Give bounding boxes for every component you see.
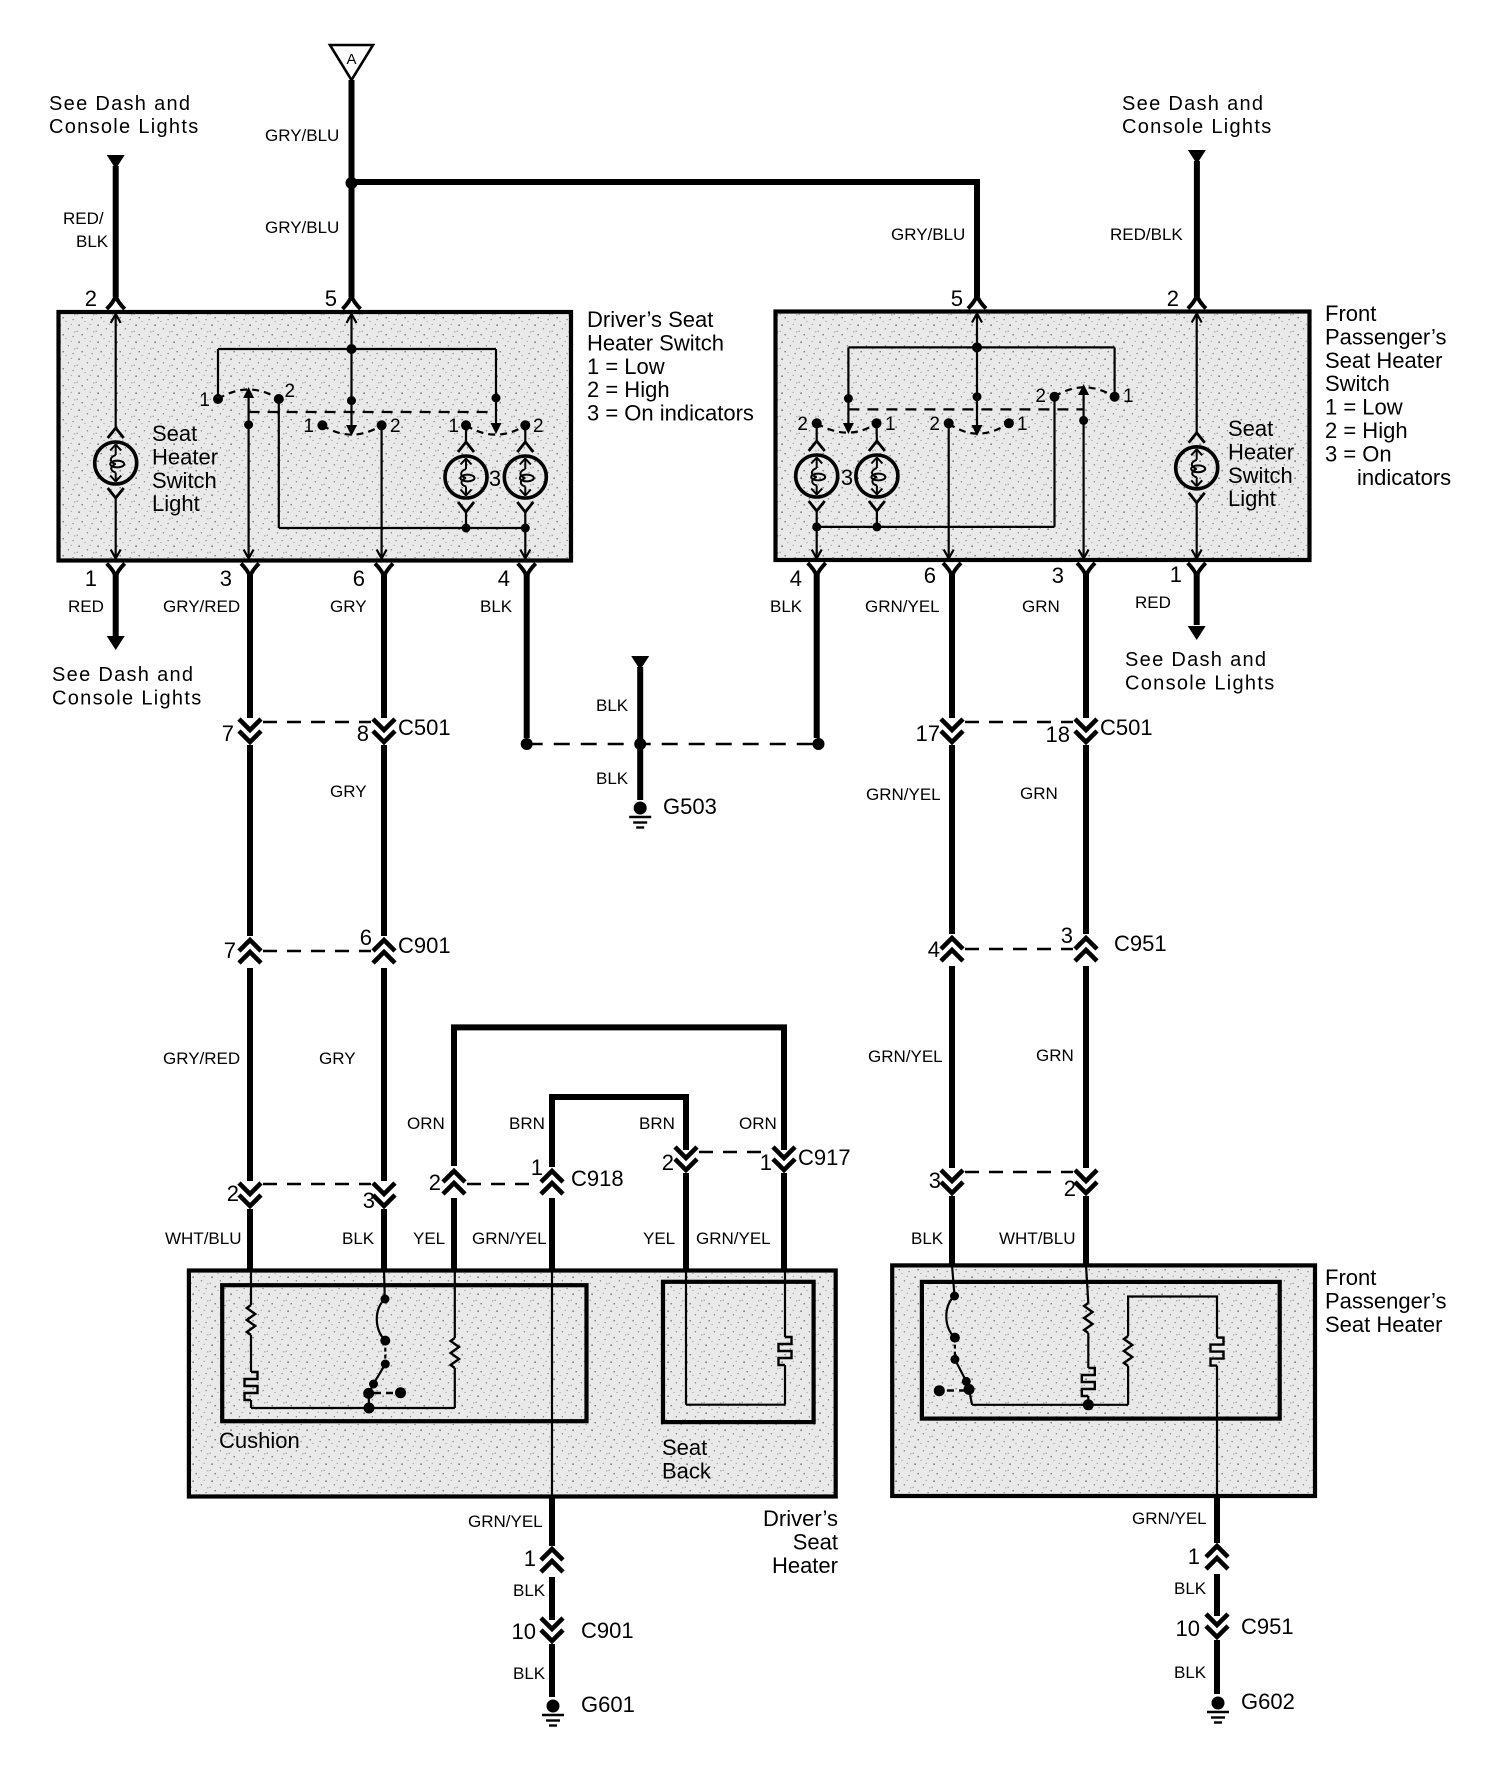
connector C501 pin 7 [239, 719, 261, 742]
svg-text:2: 2 [533, 416, 544, 437]
svg-text:Seat: Seat [1228, 416, 1273, 441]
thermostat moving arm (passenger) [955, 1359, 969, 1389]
svg-text:GRY: GRY [330, 597, 367, 616]
thermostat moving arm (driver) [369, 1364, 386, 1393]
wire GRN/YEL pin6 to C501 [949, 574, 955, 718]
pin 5 internal terminal arrow (passenger) [972, 314, 982, 323]
wire GRN/YEL inside seat back [784, 1270, 786, 1337]
junction dot on passenger return [1083, 1399, 1094, 1410]
connector C501 pin 17 [941, 719, 963, 742]
svg-text:6: 6 [924, 563, 936, 588]
wire GRN/YEL driver heater to C901 [549, 1496, 555, 1546]
svg-text:1 = Low: 1 = Low [587, 354, 665, 379]
svg-text:GRN/YEL: GRN/YEL [865, 597, 940, 616]
wire contact1 S3 to indicator lamp 1 [465, 425, 467, 442]
thermostat link dot (driver) [395, 1387, 406, 1398]
svg-text:WHT/BLU: WHT/BLU [165, 1229, 242, 1248]
contact 1 dot of switch S4 [872, 418, 882, 428]
svg-text:18: 18 [1046, 722, 1070, 747]
passenger seat connector dashed pairing line [965, 1171, 1073, 1173]
svg-text:G601: G601 [581, 1692, 635, 1717]
thermostat bimetal curve (driver) [377, 1299, 386, 1341]
svg-text:C501: C501 [398, 715, 451, 740]
dashed splice link [527, 743, 819, 745]
svg-text:GRN: GRN [1022, 597, 1060, 616]
connector C917 dashed pairing line [699, 1151, 771, 1153]
wire fuse to cushion return [250, 1400, 252, 1408]
svg-text:G503: G503 [663, 794, 717, 819]
junction dot at GRY/BLU tee [346, 177, 358, 189]
wire lamp3 to indicator bus [816, 511, 818, 527]
contact 2 dot of switch S1 (high) [274, 394, 284, 404]
wire BLK C901 to ground G601 [549, 1644, 555, 1697]
contact 2 dot of switch S5 [944, 418, 954, 428]
svg-text:C901: C901 [581, 1618, 634, 1643]
svg-text:1: 1 [85, 566, 97, 591]
lamp seat heater switch light (driver) [95, 428, 137, 498]
arrow from dash/console lights (top left) [107, 155, 125, 169]
svg-text:BLK: BLK [480, 597, 513, 616]
svg-text:3: 3 [220, 566, 232, 591]
wire GRY/RED pin3 to C501 [247, 574, 253, 718]
wire pin5 to internal bus [350, 316, 352, 349]
wire RED passenger pin 1 to dash/console lights [1194, 574, 1200, 625]
passenger seat connector pin 3 [941, 1170, 963, 1193]
svg-text:Console Lights: Console Lights [52, 688, 203, 710]
svg-text:2: 2 [85, 286, 97, 311]
connector triangle A (page link) [330, 45, 373, 80]
wire RED from pin 1 to dash/console lights [113, 574, 119, 636]
contact 2 dot of switch S2 [377, 420, 387, 430]
svg-text:GRY/BLU: GRY/BLU [265, 126, 339, 145]
svg-text:Seat Heater: Seat Heater [1325, 1312, 1442, 1337]
wire GRY pin6 to C501 [381, 574, 387, 718]
wire GRY C901 to cushion connector [381, 968, 387, 1181]
wire BLK inside cushion to thermostat [383, 1270, 386, 1299]
svg-text:GRN: GRN [1036, 1046, 1074, 1065]
wire RED/BLK to passenger switch pin 2 [1194, 161, 1200, 297]
svg-text:7: 7 [224, 938, 236, 963]
wire contact2 S2 to pin 6 [381, 425, 383, 558]
cushion connector pin 2 [239, 1183, 261, 1206]
wire element to fuse (passenger) [1087, 1333, 1089, 1368]
switch S1 dashed throw arc [218, 390, 279, 400]
svg-text:See Dash and: See Dash and [49, 93, 191, 115]
pin 2 internal terminal arrow [111, 314, 121, 323]
wire BLK to ground splice [637, 667, 643, 744]
svg-text:2: 2 [1035, 386, 1046, 407]
svg-text:RED: RED [68, 597, 104, 616]
passenger seat connector pin 2 [1075, 1170, 1097, 1193]
svg-text:ORN: ORN [407, 1114, 445, 1133]
resistor cushion heater element 1 (driver) [247, 1305, 255, 1335]
wire BLK C951 to ground G602 [1214, 1640, 1220, 1694]
thermostat link dot (passenger) [934, 1385, 945, 1396]
svg-text:BRN: BRN [639, 1114, 675, 1133]
svg-text:Front: Front [1325, 1265, 1376, 1290]
svg-text:2: 2 [1064, 1176, 1076, 1201]
connector C901 pin 6 [373, 940, 395, 963]
svg-text:BLK: BLK [513, 1664, 546, 1683]
svg-text:1: 1 [524, 1546, 536, 1571]
switch S2 dashed throw arc [322, 425, 381, 434]
internal bus from pin 5 [218, 348, 496, 350]
resistor passenger heater element 2 [1124, 1336, 1132, 1366]
wire YEL inside cushion [454, 1270, 456, 1338]
indicator lamp 1 (driver) [445, 442, 487, 512]
svg-text:BLK: BLK [596, 696, 629, 715]
wire element2 up and over (passenger) [1128, 1297, 1217, 1338]
wire fuse2 down through box (passenger) [1216, 1366, 1218, 1496]
wire bus to switch S1 contact 1 [217, 349, 219, 399]
connector C901 dashed pairing line [263, 950, 371, 952]
thermostat contact gap segment [384, 1341, 386, 1364]
svg-text:Heater: Heater [152, 444, 218, 469]
connector C501 dashed pairing line (left) [263, 721, 371, 723]
svg-text:Seat Heater: Seat Heater [1325, 348, 1442, 373]
svg-text:GRN/YEL: GRN/YEL [468, 1512, 543, 1531]
cushion connector dashed pairing line [263, 1183, 371, 1185]
wire BLK into heater (driver) [381, 1209, 387, 1272]
svg-text:2: 2 [797, 414, 808, 435]
svg-text:C917: C917 [798, 1145, 851, 1170]
svg-text:BLK: BLK [770, 597, 803, 616]
wire GRY/BLU branch across to passenger switch pin 5 [349, 179, 978, 185]
svg-text:GRY/RED: GRY/RED [163, 1049, 240, 1068]
splice dot left (driver BLK) [521, 738, 533, 750]
svg-text:Passenger’s: Passenger’s [1325, 324, 1446, 349]
cushion connector pin 3 [373, 1183, 395, 1206]
svg-text:RED: RED [1135, 593, 1171, 612]
wire GRY/BLU junction to driver switch pin 5 [349, 183, 355, 297]
connector C918 dashed pairing line [467, 1183, 539, 1185]
connector C917 pin 1 [773, 1147, 795, 1170]
switch S1 pole with arrow (to pin 3) [248, 398, 250, 558]
svg-text:4: 4 [498, 566, 510, 591]
svg-text:1: 1 [531, 1155, 543, 1180]
seat back heater element box [663, 1282, 814, 1422]
thermal fuse cushion (driver) [245, 1372, 258, 1400]
svg-text:See Dash and: See Dash and [1125, 649, 1267, 671]
svg-text:Switch: Switch [152, 468, 217, 493]
svg-text:6: 6 [353, 566, 365, 591]
svg-text:3: 3 [841, 465, 853, 490]
indicator return bus (passenger) [817, 526, 1055, 528]
svg-text:Driver’s Seat: Driver’s Seat [587, 307, 713, 332]
contact 1 dot of switch S5 [1004, 418, 1014, 428]
indicator lamp 4 (passenger) [856, 441, 898, 511]
svg-text:BLK: BLK [911, 1229, 944, 1248]
svg-text:6: 6 [360, 925, 372, 950]
thermostat feed dot (passenger) [950, 1292, 959, 1301]
switch S5 pole from bus (passenger heat) [976, 347, 978, 427]
cushion heater element box [222, 1285, 586, 1421]
ground G601 [547, 1700, 560, 1713]
passenger element return line [972, 1404, 1128, 1406]
wire GRN/YEL C501 to C951 [949, 745, 955, 934]
svg-text:5: 5 [951, 286, 963, 311]
wire GRN C951 to seat connector [1083, 966, 1089, 1168]
svg-text:1: 1 [1188, 1544, 1200, 1569]
front passenger's seat heater switch box [776, 312, 1310, 561]
junction dot on cushion return [364, 1403, 375, 1414]
wire switch light to pin 1 (passenger) [1196, 503, 1198, 558]
svg-text:1: 1 [1017, 414, 1028, 435]
svg-text:BLK: BLK [596, 769, 629, 788]
seat back element return line [686, 1404, 785, 1406]
wire element2 to cushion return [454, 1368, 456, 1408]
switch S3 pole from bus [495, 349, 497, 425]
svg-text:GRN/YEL: GRN/YEL [696, 1229, 771, 1248]
svg-text:YEL: YEL [643, 1229, 675, 1248]
wire GRY/RED C901 to cushion connector [247, 968, 253, 1181]
wire lamp4 to indicator bus [876, 511, 878, 527]
svg-text:Front: Front [1325, 301, 1376, 326]
thermal fuse passenger element 2 [1211, 1338, 1224, 1366]
wire lamp1 to indicator bus [465, 512, 467, 528]
wire GRN pin3 to C501 [1083, 574, 1089, 718]
lamp seat heater switch light (passenger) [1176, 433, 1218, 503]
switch S5 dashed throw arc [949, 423, 1009, 433]
svg-text:3 = On indicators: 3 = On indicators [587, 401, 754, 426]
svg-text:YEL: YEL [413, 1229, 445, 1248]
svg-text:17: 17 [916, 721, 940, 746]
wire BLK splice to G503 [637, 744, 643, 800]
thermostat contact gap segment (passenger) [954, 1338, 956, 1360]
pin 5 internal terminal arrow [347, 314, 357, 323]
svg-text:GRY: GRY [319, 1049, 356, 1068]
svg-text:Seat: Seat [662, 1435, 707, 1460]
junction dot on bus (passenger) [972, 342, 982, 352]
wire fuse to return (passenger) [1087, 1396, 1089, 1405]
svg-text:BRN: BRN [509, 1114, 545, 1133]
svg-text:7: 7 [222, 721, 234, 746]
wire BLK inside passenger heater to thermostat [952, 1265, 955, 1296]
ground G503 [634, 802, 647, 815]
junction dot on bus at pin5 [347, 344, 357, 354]
thermal fuse seat back (driver) [779, 1337, 792, 1365]
svg-text:GRN/YEL: GRN/YEL [866, 785, 941, 804]
wire pivot to cushion return [368, 1393, 370, 1408]
svg-text:1 = Low: 1 = Low [1325, 395, 1403, 420]
svg-text:2: 2 [390, 416, 401, 437]
cushion element return line [251, 1407, 455, 1409]
svg-text:2: 2 [662, 1150, 674, 1175]
svg-text:1: 1 [199, 390, 210, 411]
connector C951 dashed pairing line [965, 948, 1073, 950]
svg-text:1: 1 [448, 416, 459, 437]
svg-text:C918: C918 [571, 1166, 624, 1191]
svg-text:2: 2 [929, 414, 940, 435]
wire contact2 S1 down to indicator bus [278, 399, 280, 528]
thermostat feed dot (driver) [381, 1295, 390, 1304]
svg-text:Console Lights: Console Lights [1125, 673, 1276, 695]
wire switch light to pin 1 [115, 498, 117, 558]
svg-text:Light: Light [1228, 486, 1276, 511]
wire contact1 S4 to indicator lamp 4 [875, 423, 878, 441]
resistor passenger heater element 1 [1084, 1303, 1092, 1333]
thermostat pivot dot (passenger) [964, 1384, 975, 1395]
wire GRN/YEL C951 to seat connector [949, 966, 955, 1168]
wire GRY/RED C501 to C901 [247, 745, 253, 936]
svg-text:BLK: BLK [1174, 1579, 1207, 1598]
svg-text:Heater Switch: Heater Switch [587, 330, 724, 355]
wire GRN C501 to C951 [1083, 745, 1089, 934]
resistor cushion heater element 2 (driver) [451, 1338, 459, 1368]
thermostat dashed actuator link (driver) [374, 1392, 395, 1394]
connector C501 pin 18 [1075, 719, 1097, 742]
wire GRY/BLU from connector A down to junction [349, 80, 355, 183]
svg-text:C951: C951 [1241, 1614, 1294, 1639]
wire return up to element 2 (passenger) [1127, 1366, 1129, 1405]
svg-text:GRN/YEL: GRN/YEL [1132, 1509, 1207, 1528]
switch S4 dashed throw arc [817, 423, 877, 432]
svg-text:2 = High: 2 = High [1325, 418, 1408, 443]
wire pin2 to switch light (passenger) [1196, 315, 1198, 433]
ganged switch dashed link (driver) [249, 411, 496, 413]
wire WHT/BLU into passenger heater [1083, 1196, 1089, 1267]
arrow feed for ground wire BLK [631, 656, 649, 670]
svg-text:See Dash and: See Dash and [52, 664, 194, 686]
contact 2 dot of switch S6 [1050, 392, 1060, 402]
svg-text:Cushion: Cushion [219, 1428, 300, 1453]
switch S4 pole from bus (indicator selector) [847, 347, 849, 425]
svg-text:GRN/YEL: GRN/YEL [868, 1047, 943, 1066]
svg-text:1: 1 [760, 1150, 772, 1175]
svg-text:4: 4 [790, 566, 802, 591]
svg-text:G602: G602 [1241, 1689, 1295, 1714]
svg-text:indicators: indicators [1357, 465, 1451, 490]
arrow from dash/console lights (top right) [1188, 150, 1206, 164]
svg-text:GRY/BLU: GRY/BLU [891, 225, 965, 244]
thermostat dashed actuator link (passenger) [947, 1389, 964, 1391]
svg-text:C501: C501 [1100, 715, 1153, 740]
svg-text:2: 2 [227, 1181, 239, 1206]
wire contact2 S5 to pin 6 (passenger) [948, 423, 950, 558]
wire BRN loop (seat back feed) [552, 1097, 686, 1167]
svg-text:GRY/BLU: GRY/BLU [265, 218, 339, 237]
switch S6 pole (to pin 3, passenger) [1082, 395, 1084, 558]
svg-text:1: 1 [303, 416, 314, 437]
svg-text:Heater: Heater [772, 1553, 838, 1578]
wire contact1 S6 up to bus [1113, 347, 1115, 396]
wire WHT/BLU into heater [247, 1209, 253, 1272]
svg-text:Light: Light [152, 491, 200, 516]
svg-text:BLK: BLK [513, 1581, 546, 1600]
passenger heater element box [922, 1282, 1280, 1419]
connector C501 dashed pairing line (right) [965, 721, 1073, 723]
wire pin5 to internal bus (passenger) [976, 315, 978, 347]
svg-text:RED/: RED/ [63, 209, 104, 228]
svg-text:3: 3 [363, 1188, 375, 1213]
wire GRN/YEL from C917 into heater [781, 1173, 787, 1272]
contact 1 dot of switch S3 [461, 420, 471, 430]
svg-text:Passenger’s: Passenger’s [1325, 1288, 1446, 1313]
driver's seat heater box [189, 1271, 836, 1497]
svg-text:8: 8 [357, 721, 369, 746]
svg-text:3: 3 [929, 1168, 941, 1193]
svg-text:GRY/RED: GRY/RED [163, 597, 240, 616]
svg-text:2 = High: 2 = High [587, 377, 670, 402]
svg-text:C901: C901 [398, 933, 451, 958]
svg-text:Seat: Seat [793, 1529, 838, 1554]
contact 1 dot of switch S1 (low) [213, 394, 223, 404]
wire GRN/YEL from C918 into heater [549, 1198, 555, 1272]
thermal fuse passenger element 1 [1082, 1368, 1095, 1396]
wire element1 to thermal fuse [250, 1335, 252, 1372]
svg-text:2: 2 [1167, 286, 1179, 311]
svg-text:Heater: Heater [1228, 439, 1294, 464]
contact 2 dot of switch S3 [520, 420, 530, 430]
wire indicator bus to pin 4 (passenger) [816, 527, 818, 558]
contact 1 dot of switch S6 [1110, 392, 1120, 402]
svg-text:GRN/YEL: GRN/YEL [472, 1229, 547, 1248]
connector C918 pin 1 [541, 1171, 563, 1194]
wire pin2 to switch light [115, 316, 117, 428]
wire BLK pin1 to C951 pin 10 [1214, 1574, 1220, 1616]
svg-text:4: 4 [928, 937, 940, 962]
svg-text:Switch: Switch [1228, 463, 1293, 488]
driver's seat heater switch box [59, 312, 572, 561]
svg-text:3: 3 [1061, 923, 1073, 948]
connector C918 pin 2 [443, 1171, 465, 1194]
svg-text:2: 2 [285, 381, 296, 402]
svg-text:2: 2 [429, 1170, 441, 1195]
switch S2 pole from bus [350, 349, 352, 427]
wire ORN loop (seat back feed) [454, 1027, 784, 1166]
indicator return bus (driver) [279, 527, 526, 529]
wire contact2 S6 down to indicator bus [1053, 397, 1055, 527]
wire BLK pin4 to ground splice [524, 574, 530, 738]
ground G602 [1212, 1697, 1225, 1710]
svg-text:WHT/BLU: WHT/BLU [999, 1229, 1076, 1248]
wire YEL from C918 into heater [451, 1198, 457, 1272]
wire pivot to element return (passenger) [969, 1389, 972, 1404]
indicator lamp 2 (driver) [504, 442, 546, 512]
svg-text:Console Lights: Console Lights [49, 116, 200, 138]
svg-text:3: 3 [489, 466, 501, 491]
wire WHT/BLU inside cushion [250, 1270, 252, 1305]
svg-text:3: 3 [1052, 563, 1064, 588]
svg-text:Seat: Seat [152, 421, 197, 446]
svg-text:C951: C951 [1114, 931, 1167, 956]
connector C951 pin 3 [1075, 938, 1097, 961]
wire YEL from C917 into heater [683, 1173, 689, 1272]
svg-text:BLK: BLK [342, 1229, 375, 1248]
switch S3 dashed throw arc [466, 425, 525, 434]
wire contact2 S4 to indicator lamp 3 [816, 423, 818, 441]
svg-text:5: 5 [325, 286, 337, 311]
wire WHT/BLU inside passenger heater [1086, 1265, 1088, 1303]
wire GRY C501 to C901 [381, 745, 387, 936]
wire BLK pin1 to C901 pin 10 [549, 1577, 555, 1620]
contact 2 dot of switch S4 [812, 418, 822, 428]
switch S6 dashed throw arc [1055, 387, 1115, 396]
connector C951 pin 4 [941, 938, 963, 961]
svg-text:GRN: GRN [1020, 784, 1058, 803]
svg-text:ORN: ORN [739, 1114, 777, 1133]
svg-text:3 = On: 3 = On [1325, 441, 1392, 466]
svg-text:Back: Back [662, 1458, 712, 1483]
front passenger's seat heater box [892, 1265, 1315, 1496]
svg-text:BLK: BLK [1174, 1663, 1207, 1682]
svg-text:RED/BLK: RED/BLK [1110, 225, 1183, 244]
wire lamp2 to indicator bus [524, 512, 526, 528]
svg-text:See Dash and: See Dash and [1122, 93, 1264, 115]
wire contact2 S3 to indicator lamp 2 [524, 425, 526, 442]
svg-text:Console Lights: Console Lights [1122, 116, 1273, 138]
wire seat back fuse to return [784, 1365, 786, 1405]
